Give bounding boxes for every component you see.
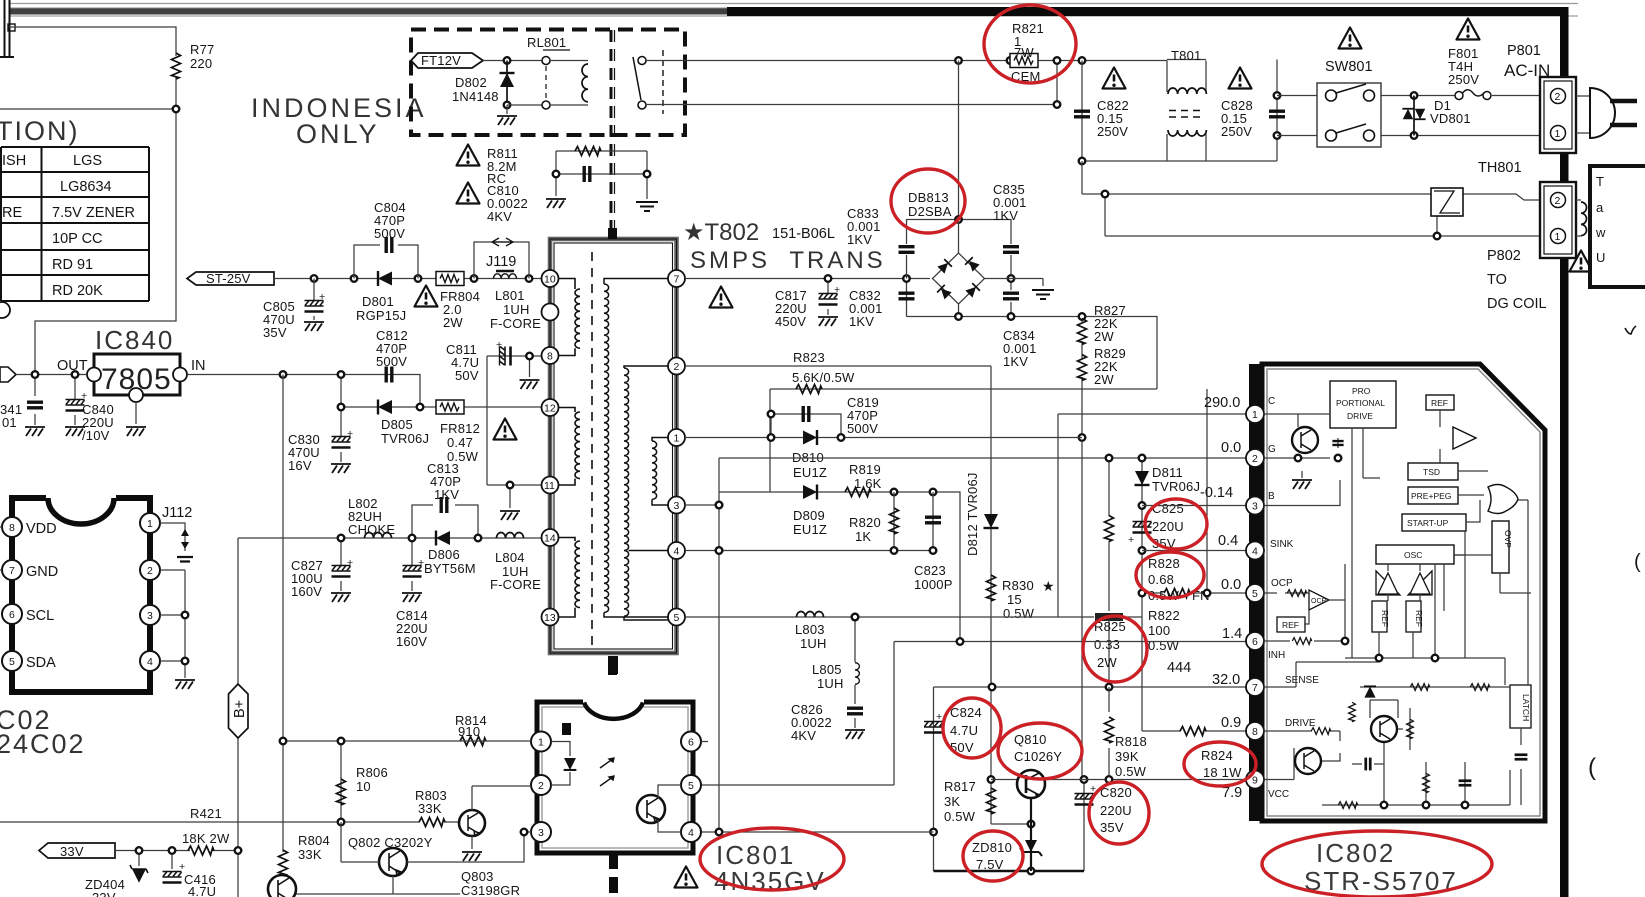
svg-text:D801: D801 [362, 294, 394, 309]
svg-text:0.5W: 0.5W [1148, 638, 1180, 653]
svg-text:33K: 33K [298, 847, 322, 862]
svg-text:2W: 2W [1094, 372, 1114, 387]
svg-text:2: 2 [1252, 453, 1258, 465]
svg-text:10: 10 [544, 274, 556, 286]
svg-text:EU1Z: EU1Z [793, 522, 827, 537]
svg-text:T801: T801 [1171, 48, 1201, 63]
svg-text:500V: 500V [376, 354, 407, 369]
svg-text:REF: REF [1431, 398, 1448, 408]
svg-text:+: + [347, 557, 353, 569]
svg-text:T: T [1596, 174, 1604, 189]
svg-text:REF: REF [1282, 620, 1299, 630]
svg-text:35V: 35V [263, 325, 287, 340]
svg-text:5.6K/0.5W: 5.6K/0.5W [792, 370, 855, 385]
svg-text:0.5W: 0.5W [1115, 764, 1147, 779]
svg-text:DB813: DB813 [908, 190, 949, 205]
svg-text:OSC: OSC [1404, 550, 1422, 560]
svg-text:D806: D806 [428, 547, 460, 562]
svg-text:1KV: 1KV [434, 487, 459, 502]
svg-text:RL801: RL801 [527, 35, 566, 50]
svg-text:1N4148: 1N4148 [452, 89, 499, 104]
svg-text:REF: REF [1380, 610, 1390, 627]
svg-text:100: 100 [1148, 623, 1170, 638]
svg-text:1000P: 1000P [914, 577, 953, 592]
svg-text:TH801: TH801 [1478, 160, 1522, 176]
svg-text:33V: 33V [60, 844, 84, 859]
svg-text:R823: R823 [793, 350, 825, 365]
svg-text:0.0: 0.0 [1221, 440, 1241, 456]
svg-text:OCP: OCP [1271, 578, 1293, 589]
svg-text:IC840: IC840 [95, 325, 174, 355]
svg-text:11: 11 [544, 480, 555, 492]
svg-text:2W: 2W [443, 315, 463, 330]
svg-text:ZD810: ZD810 [972, 840, 1012, 855]
svg-text:Q803: Q803 [461, 869, 494, 884]
svg-text:39K: 39K [1115, 749, 1139, 764]
svg-text:2: 2 [538, 780, 544, 792]
svg-text:14: 14 [544, 533, 556, 545]
svg-text:1: 1 [1252, 409, 1258, 421]
svg-text:RD 20K: RD 20K [52, 283, 103, 299]
svg-text:8: 8 [547, 351, 553, 363]
svg-text:D802: D802 [455, 75, 487, 90]
svg-text:2: 2 [674, 361, 680, 373]
svg-text:+: + [834, 284, 840, 296]
svg-text:160V: 160V [396, 634, 427, 649]
svg-text:1: 1 [147, 518, 153, 530]
svg-text:18K 2W: 18K 2W [182, 831, 230, 846]
svg-text:TVR06J: TVR06J [381, 431, 429, 446]
svg-text:0.5W: 0.5W [1003, 606, 1035, 621]
svg-text:4KV: 4KV [487, 209, 512, 224]
svg-text:160V: 160V [291, 584, 322, 599]
svg-text:1KV: 1KV [993, 208, 1018, 223]
svg-text:220: 220 [190, 56, 212, 71]
svg-text:10: 10 [356, 779, 371, 794]
svg-text:L804: L804 [495, 550, 525, 565]
svg-text:0.33: 0.33 [1094, 637, 1120, 652]
svg-text:-0.14: -0.14 [1200, 485, 1233, 501]
svg-text:1.6K: 1.6K [854, 476, 882, 491]
svg-text:a: a [1596, 200, 1604, 215]
svg-text:6: 6 [688, 737, 694, 749]
svg-text:ISH: ISH [2, 153, 26, 169]
svg-text:+: + [319, 291, 325, 303]
svg-text:G: G [1268, 444, 1276, 455]
svg-text:BYT56M: BYT56M [424, 561, 476, 576]
svg-text:TO: TO [1487, 272, 1507, 288]
svg-text:0.4: 0.4 [1218, 533, 1238, 549]
svg-text:C1026Y: C1026Y [1014, 749, 1062, 764]
svg-text:15: 15 [1007, 592, 1022, 607]
svg-text:ONLY: ONLY [296, 119, 380, 149]
svg-text:0.0: 0.0 [1221, 577, 1241, 593]
svg-text:R819: R819 [849, 462, 881, 477]
svg-text:1: 1 [1555, 128, 1561, 140]
svg-text:4: 4 [1252, 546, 1258, 558]
svg-text:TVR06J: TVR06J [1152, 479, 1200, 494]
svg-text:7.5V: 7.5V [976, 857, 1004, 872]
svg-text:IC802: IC802 [1316, 838, 1395, 868]
svg-text:R806: R806 [356, 765, 388, 780]
svg-text:+: + [1128, 534, 1134, 546]
svg-text:LATCH: LATCH [1521, 694, 1531, 721]
svg-text:L801: L801 [495, 288, 525, 303]
svg-text:SCL: SCL [26, 608, 54, 624]
svg-text:4.7U: 4.7U [188, 884, 216, 897]
svg-text:R830: R830 [1002, 578, 1034, 593]
svg-text:START-UP: START-UP [1407, 518, 1449, 528]
svg-text:13: 13 [544, 612, 556, 624]
svg-text:TSD: TSD [1423, 467, 1440, 477]
svg-text:1KV: 1KV [1003, 354, 1028, 369]
svg-text:★: ★ [1042, 578, 1055, 594]
svg-text:★T802: ★T802 [683, 219, 759, 246]
svg-text:50V: 50V [455, 368, 479, 383]
svg-text:35V: 35V [1100, 820, 1124, 835]
svg-text:R820: R820 [849, 515, 881, 530]
svg-text:C824: C824 [950, 705, 982, 720]
svg-text:FT12V: FT12V [421, 53, 461, 68]
svg-text:3: 3 [147, 610, 153, 622]
svg-text:TION): TION) [0, 116, 80, 146]
svg-text:J119: J119 [486, 254, 516, 270]
svg-text:RE: RE [2, 205, 22, 221]
svg-text:GND: GND [26, 564, 58, 580]
svg-text:4: 4 [688, 827, 694, 839]
svg-text:2: 2 [1555, 91, 1561, 103]
svg-text:D2SBA: D2SBA [908, 204, 952, 219]
svg-text:C: C [1268, 396, 1275, 407]
svg-text:0.47: 0.47 [447, 435, 473, 450]
svg-text:1: 1 [538, 737, 544, 749]
svg-text:444: 444 [1167, 660, 1191, 676]
svg-text:SMPS TRANS: SMPS TRANS [690, 247, 886, 274]
svg-text:4: 4 [674, 546, 680, 558]
svg-text:1UH: 1UH [817, 676, 844, 691]
svg-text:OCP: OCP [1311, 598, 1327, 605]
svg-text:C3198GR: C3198GR [461, 883, 520, 897]
svg-text:1KV: 1KV [847, 232, 872, 247]
svg-text:VDD: VDD [26, 521, 57, 537]
svg-text:PRE+PEG: PRE+PEG [1411, 491, 1451, 501]
svg-text:16V: 16V [288, 458, 312, 473]
svg-text:SW801: SW801 [1325, 59, 1373, 75]
svg-text:18 1W: 18 1W [1203, 765, 1242, 780]
svg-text:8: 8 [1252, 726, 1258, 738]
svg-text:4: 4 [147, 656, 153, 668]
svg-text:4KV: 4KV [791, 728, 816, 743]
svg-text:5: 5 [688, 780, 694, 792]
svg-text:ST-25V: ST-25V [206, 271, 251, 286]
svg-text:+: + [81, 390, 87, 402]
svg-text:8: 8 [9, 522, 15, 534]
svg-text:D811: D811 [1152, 465, 1183, 480]
svg-text:PRO: PRO [1352, 386, 1371, 396]
svg-text:B+: B+ [232, 700, 248, 718]
svg-text:R824: R824 [1201, 748, 1233, 763]
svg-text:7: 7 [1252, 682, 1258, 694]
svg-text:R817: R817 [944, 779, 976, 794]
svg-text:R77: R77 [190, 42, 214, 57]
svg-text:VD801: VD801 [1430, 111, 1471, 126]
svg-text:R818: R818 [1115, 734, 1147, 749]
svg-text:U: U [1596, 250, 1606, 265]
svg-text:6: 6 [9, 609, 15, 621]
svg-text:PORTIONAL: PORTIONAL [1336, 398, 1385, 408]
svg-text:VCC: VCC [1268, 789, 1289, 800]
svg-text:24C02: 24C02 [0, 729, 86, 759]
svg-text:EU1Z: EU1Z [793, 465, 827, 480]
svg-text:151-B06L: 151-B06L [772, 226, 835, 242]
svg-text:L803: L803 [795, 622, 825, 637]
svg-text:J112: J112 [162, 505, 192, 521]
svg-text:250V: 250V [1448, 72, 1479, 87]
svg-text:R421: R421 [190, 806, 222, 821]
svg-text:9: 9 [1252, 775, 1258, 787]
svg-text:R828: R828 [1148, 556, 1180, 571]
svg-text:5: 5 [1252, 588, 1258, 600]
svg-text:R822: R822 [1148, 608, 1180, 623]
svg-text:1.4: 1.4 [1222, 626, 1242, 642]
svg-text:0.68: 0.68 [1148, 572, 1174, 587]
svg-text:250V: 250V [1097, 124, 1128, 139]
svg-text:0.9: 0.9 [1221, 715, 1241, 731]
svg-text:3: 3 [538, 827, 544, 839]
svg-text:D809: D809 [793, 508, 825, 523]
svg-text:3: 3 [674, 500, 680, 512]
svg-text:D812 TVR06J: D812 TVR06J [965, 472, 980, 556]
svg-text:12: 12 [544, 403, 556, 415]
svg-text:F-CORE: F-CORE [490, 316, 541, 331]
svg-text:RGP15J: RGP15J [356, 308, 406, 323]
svg-text:DRIVE: DRIVE [1347, 411, 1373, 421]
svg-text:1UH: 1UH [800, 636, 827, 651]
svg-text:+: + [496, 339, 502, 351]
svg-text:2: 2 [1555, 195, 1561, 207]
svg-text:3: 3 [1252, 501, 1258, 513]
svg-text:+: + [418, 557, 424, 569]
svg-text:5: 5 [9, 656, 15, 668]
svg-text:SDA: SDA [26, 655, 56, 671]
svg-text:+: + [936, 711, 942, 723]
svg-text:2W: 2W [1097, 655, 1117, 670]
svg-text:290.0: 290.0 [1204, 395, 1240, 411]
svg-text:LG8634: LG8634 [60, 179, 112, 195]
svg-text:OVP: OVP [1503, 530, 1513, 548]
svg-text:Q810: Q810 [1014, 732, 1047, 747]
svg-text:L805: L805 [812, 662, 842, 677]
svg-text:0.5W: 0.5W [944, 809, 976, 824]
svg-text:1K: 1K [855, 529, 871, 544]
svg-text:10P CC: 10P CC [52, 231, 103, 247]
svg-text:7: 7 [674, 274, 680, 286]
svg-text:(: ( [1634, 551, 1641, 573]
svg-text:P801: P801 [1507, 43, 1541, 59]
svg-text:B: B [1268, 491, 1275, 502]
svg-text:D805: D805 [381, 417, 413, 432]
svg-text:RD 91: RD 91 [52, 257, 93, 273]
svg-text:220U: 220U [1100, 803, 1132, 818]
svg-text:500V: 500V [847, 421, 878, 436]
svg-text:SINK: SINK [1270, 539, 1294, 550]
svg-text:IN: IN [191, 358, 206, 374]
svg-text:500V: 500V [374, 226, 405, 241]
svg-text:01: 01 [2, 415, 17, 430]
svg-text:SENSE: SENSE [1285, 675, 1319, 686]
svg-text:6: 6 [1252, 636, 1258, 648]
svg-text:INH: INH [1268, 650, 1285, 661]
svg-text:2: 2 [147, 565, 153, 577]
svg-text:+: + [347, 428, 353, 440]
svg-text:w: w [1595, 225, 1606, 240]
svg-text:33K: 33K [418, 801, 442, 816]
svg-text:LGS: LGS [73, 153, 102, 169]
svg-text:910: 910 [458, 724, 480, 739]
svg-text:C823: C823 [914, 563, 946, 578]
svg-text:220U: 220U [1152, 519, 1184, 534]
svg-text:33V: 33V [92, 890, 116, 897]
svg-text:CHOKE: CHOKE [348, 522, 395, 537]
svg-text:DRIVE: DRIVE [1285, 718, 1316, 729]
svg-text:7: 7 [9, 565, 15, 577]
svg-text:3K: 3K [944, 794, 960, 809]
svg-text:1: 1 [1555, 231, 1561, 243]
svg-text:1UH: 1UH [503, 302, 530, 317]
svg-text:250V: 250V [1221, 124, 1252, 139]
svg-text:FR812: FR812 [440, 421, 480, 436]
svg-text:5: 5 [674, 612, 680, 624]
svg-text:7.5V ZENER: 7.5V ZENER [52, 205, 135, 221]
svg-text:450V: 450V [775, 314, 806, 329]
svg-text:P802: P802 [1487, 248, 1521, 264]
svg-text:DG COIL: DG COIL [1487, 296, 1547, 312]
svg-text:2W: 2W [1094, 329, 1114, 344]
svg-text:(: ( [1588, 754, 1596, 781]
svg-text:R804: R804 [298, 833, 330, 848]
svg-text:1: 1 [674, 433, 680, 445]
svg-text:/10V: /10V [82, 428, 110, 443]
svg-text:1KV: 1KV [849, 314, 874, 329]
svg-text:4.7U: 4.7U [950, 723, 978, 738]
svg-text:7W: 7W [1014, 45, 1034, 60]
svg-text:32.0: 32.0 [1212, 672, 1240, 688]
svg-text:REF: REF [1414, 610, 1424, 627]
svg-text:F-CORE: F-CORE [490, 577, 541, 592]
